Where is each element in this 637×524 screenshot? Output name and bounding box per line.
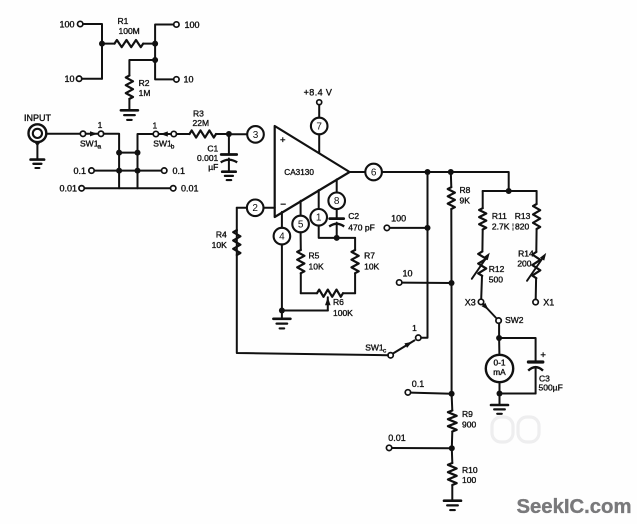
- svg-text:¦: ¦: [512, 222, 514, 231]
- wire pin2 to op-amp: [264, 207, 275, 209]
- svg-text:1M: 1M: [139, 88, 151, 98]
- svg-text:1: 1: [316, 213, 322, 224]
- node 0.1 on right vertical: [135, 168, 141, 174]
- wire 10 terminal: [402, 282, 452, 284]
- svg-text:10: 10: [403, 269, 413, 279]
- potentiometer R6 100K body: [317, 290, 343, 297]
- wire meter top rail to C3: [499, 338, 535, 362]
- svg-text:R5: R5: [309, 251, 320, 261]
- svg-text:200: 200: [517, 259, 531, 269]
- wire from left 10 terminal to R1-left vertical: [82, 78, 102, 80]
- svg-text:R7: R7: [364, 251, 375, 261]
- svg-text:7: 7: [316, 121, 322, 132]
- wire input to SW1a: [46, 133, 80, 135]
- wire pin7 to op-amp top edge: [318, 134, 320, 153]
- node 0.01 junction: [449, 445, 455, 451]
- wire pin4 down: [281, 244, 283, 318]
- svg-text:22M: 22M: [193, 118, 210, 128]
- svg-text:4: 4: [279, 232, 285, 243]
- svg-text:10: 10: [64, 74, 74, 84]
- svg-text:100K: 100K: [333, 308, 353, 318]
- svg-text:0.1: 0.1: [73, 166, 86, 176]
- meter M1 0-1 mA: [486, 338, 513, 382]
- rheostat R14 200: [517, 249, 546, 300]
- wire edge to pin 8: [336, 179, 338, 192]
- wire pin1 down to C2 node: [319, 226, 355, 238]
- svg-text:2: 2: [252, 203, 258, 214]
- svg-text:C2: C2: [348, 211, 359, 221]
- switch SW1c common: [388, 353, 393, 358]
- pin 8 of U1: [328, 193, 345, 210]
- svg-text:10: 10: [184, 75, 194, 85]
- node link left: [116, 150, 122, 156]
- svg-text:R13: R13: [515, 211, 531, 221]
- node 0.1 junction: [449, 391, 455, 397]
- wire to R2: [129, 60, 155, 76]
- resistor R9 900: [448, 394, 477, 449]
- node R3/C1/pin3: [226, 131, 232, 137]
- capacitor C3 500uF: [528, 350, 563, 393]
- wire 0.01 terminal: [392, 447, 452, 449]
- svg-text:R11: R11: [492, 211, 507, 221]
- wire R8 node to 0.1 node: [451, 283, 453, 394]
- resistor R4 10K: [212, 208, 241, 255]
- node C2 bottom: [334, 235, 340, 241]
- svg-text:3: 3: [253, 130, 259, 141]
- svg-text:0.01: 0.01: [181, 184, 199, 194]
- svg-text:SW1: SW1: [365, 343, 384, 353]
- svg-text:500: 500: [489, 275, 503, 285]
- svg-text:R1: R1: [118, 16, 129, 26]
- R6 wiper arrow: [325, 297, 331, 310]
- svg-text:R12: R12: [489, 264, 505, 274]
- svg-text:+: +: [540, 350, 546, 361]
- resistor R7 10K: [352, 238, 380, 293]
- wire divider top rail: [483, 190, 537, 192]
- svg-text:−: −: [280, 199, 286, 210]
- resistor R10 100: [448, 448, 478, 500]
- resistor R13 820: [515, 191, 540, 252]
- pin 7 of U1: [311, 118, 328, 135]
- svg-text:0.01: 0.01: [59, 184, 77, 194]
- wire +8.4V to pin 7: [318, 105, 320, 118]
- svg-text:470 pF: 470 pF: [348, 222, 374, 232]
- resistor R2 1M: [126, 76, 151, 111]
- wire selector link: [119, 152, 137, 154]
- svg-text:6: 6: [371, 167, 377, 178]
- svg-text:10K: 10K: [364, 261, 379, 271]
- wire edge to pin 4: [281, 212, 283, 228]
- ground below pin 4: [273, 319, 290, 329]
- svg-text:+8.4 V: +8.4 V: [304, 88, 333, 98]
- terminal X3: [465, 297, 484, 307]
- svg-text:1: 1: [98, 120, 103, 130]
- ground below meter: [491, 394, 508, 414]
- terminal 0.01 (right): [171, 184, 199, 194]
- node at R1 right: [152, 41, 158, 47]
- svg-text:100M: 100M: [119, 26, 140, 36]
- svg-text:0.1: 0.1: [173, 166, 186, 176]
- resistor R8 9K: [448, 172, 471, 283]
- wire op-amp output to pin 6: [350, 171, 366, 173]
- svg-text:CA3130: CA3130: [284, 168, 314, 177]
- wire edge to pin 1: [318, 190, 320, 209]
- svg-text:0.01: 0.01: [388, 433, 406, 443]
- svg-text:R10: R10: [462, 465, 478, 475]
- resistor R1 100M: [102, 16, 155, 47]
- wire wiper to ground node: [282, 310, 328, 312]
- node output/SW1c-branch: [425, 169, 431, 175]
- switch SW1a: [80, 120, 104, 150]
- svg-text:SW2: SW2: [505, 315, 524, 325]
- resistor R11 2.7K: [479, 191, 510, 252]
- svg-text:R2: R2: [139, 78, 150, 88]
- svg-text:900: 900: [462, 419, 476, 429]
- svg-text:100: 100: [462, 475, 476, 485]
- svg-text:b: b: [171, 144, 175, 151]
- svg-text:R9: R9: [462, 409, 473, 419]
- wire 0.1 row: [94, 170, 161, 172]
- wire SW1b to R3: [177, 133, 190, 135]
- terminal 0.01 (range): [386, 433, 405, 451]
- watermark SeekIC.com: [517, 496, 632, 518]
- node output/R8-branch: [448, 169, 454, 175]
- pin 4 of U1: [274, 228, 291, 245]
- wire 100 terminal: [390, 227, 428, 229]
- wire meter bottom rail: [500, 382, 536, 393]
- wire SW1a to left selector vertical: [104, 134, 119, 189]
- svg-text:SW1: SW1: [153, 139, 172, 149]
- input jack J1: [24, 113, 52, 159]
- node 100 junction: [425, 225, 431, 231]
- capacitor C2 470 pF: [329, 209, 375, 238]
- svg-text:10K: 10K: [212, 240, 227, 250]
- wire output bus: [382, 172, 509, 191]
- wire 0.1 terminal: [411, 393, 452, 394]
- pin 1 of U1: [310, 209, 327, 226]
- terminal X1: [533, 298, 554, 308]
- terminal 10 (right): [174, 75, 194, 85]
- wire right selector vertical to SW1b: [138, 134, 154, 188]
- wire SW2 to meter node: [498, 323, 500, 338]
- resistor R5 10K: [297, 232, 324, 293]
- node 0.1 on left vertical: [116, 168, 122, 174]
- terminal 0.01 (left): [59, 184, 84, 194]
- pin 3 of U1: [247, 126, 264, 143]
- svg-text:a: a: [98, 143, 102, 150]
- svg-text:SeekIC.com: SeekIC.com: [517, 496, 632, 518]
- svg-text:10K: 10K: [309, 261, 324, 271]
- svg-text:R14: R14: [518, 249, 534, 259]
- ground below R10: [444, 501, 461, 510]
- node rail feed: [506, 188, 512, 194]
- svg-text:SW1: SW1: [80, 138, 99, 148]
- ground below C1: [222, 172, 236, 180]
- resistor R3 22M: [190, 109, 229, 138]
- svg-text:0.1: 0.1: [412, 379, 425, 389]
- switch SW2 arm: [482, 303, 524, 325]
- node link right: [135, 150, 141, 156]
- svg-text:1: 1: [412, 323, 417, 333]
- svg-text:100: 100: [391, 213, 406, 223]
- terminal 0.1 (right): [162, 166, 186, 176]
- switch SW1c arm: [365, 340, 414, 354]
- wire node to pin 3: [232, 133, 247, 135]
- svg-text:INPUT: INPUT: [24, 113, 52, 123]
- R6 label: [333, 297, 353, 318]
- svg-text:X1: X1: [543, 298, 554, 308]
- svg-text:mA: mA: [493, 367, 506, 377]
- ghost artifact digits: [492, 417, 539, 442]
- svg-text:R4: R4: [216, 229, 227, 239]
- svg-text:1: 1: [153, 120, 158, 130]
- terminal 10 (left, below): [64, 74, 81, 84]
- svg-text:500µF: 500µF: [539, 383, 563, 393]
- svg-text:R6: R6: [333, 297, 344, 307]
- wire R4 feedback run: [237, 230, 388, 355]
- svg-text:5: 5: [298, 219, 304, 230]
- pin 5 of U1: [292, 216, 309, 233]
- ground below R2: [121, 110, 138, 120]
- terminal 100 (left, R1 top-left): [59, 19, 82, 29]
- wire right vertical of top network: [155, 25, 174, 80]
- divider bar: [512, 222, 514, 231]
- svg-text:9K: 9K: [460, 195, 471, 205]
- svg-text:820: 820: [515, 221, 529, 231]
- terminal 100 (right): [174, 20, 200, 30]
- op-amp U1 CA3130: [275, 126, 350, 217]
- svg-text:µF: µF: [208, 162, 218, 172]
- switch SW2 contact: [496, 318, 501, 323]
- switch SW1b: [153, 120, 177, 150]
- node pin4/ground: [279, 308, 285, 314]
- svg-text:X3: X3: [465, 297, 476, 307]
- node at R2 branch: [152, 57, 158, 63]
- terminal 0.1 (range): [405, 379, 424, 395]
- wire SW1c branch vertical: [421, 172, 428, 338]
- svg-text:R8: R8: [460, 185, 471, 195]
- ground below input jack: [31, 160, 44, 168]
- terminal 10 (range): [397, 269, 413, 286]
- svg-text:2.7K: 2.7K: [492, 221, 510, 231]
- terminal 0.1 (left): [73, 166, 94, 176]
- node meter top: [496, 335, 502, 341]
- svg-text:8: 8: [334, 196, 340, 207]
- rheostat R12 500: [472, 252, 505, 300]
- wire 0.01 row: [84, 187, 170, 189]
- svg-text:+: +: [280, 135, 286, 146]
- wire R4-corner to pin 2: [237, 207, 247, 209]
- terminal +8.4 V: [304, 88, 333, 105]
- svg-text:100: 100: [185, 20, 200, 30]
- wire bottom rail R5-R6-R7: [301, 292, 355, 294]
- wire edge to pin 5: [300, 201, 302, 216]
- wire from left 100 terminal to node at R1 left: [83, 24, 102, 79]
- pin 6 of U1: [365, 164, 382, 181]
- node meter bottom: [497, 391, 503, 397]
- node 10 junction: [449, 280, 455, 286]
- terminal 100 (range): [384, 213, 406, 230]
- node at R1 left: [99, 41, 105, 47]
- pin 2 of U1: [247, 200, 264, 217]
- capacitor C1 0.001 uF: [197, 134, 237, 172]
- svg-text:100: 100: [59, 19, 74, 29]
- terminal 1 of SW1c: [412, 323, 421, 340]
